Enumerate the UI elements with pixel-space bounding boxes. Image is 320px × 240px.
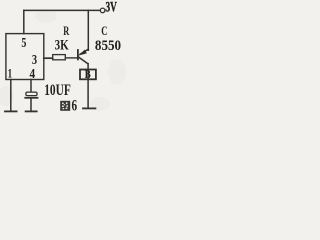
capacitor C1 bottom plate [25,97,37,99]
ground bar capacitor [26,110,37,112]
svg-text:R: R [63,23,69,38]
wire emitter vertical from rail [87,10,89,50]
ground bar under box B [83,107,95,109]
ground bar pin1 [5,110,17,112]
background [0,0,126,118]
wire pin1 down [10,80,12,112]
scan shading blobs [0,9,126,111]
svg-text:1: 1 [8,65,13,80]
box B (buzzer) [80,70,96,80]
transistor Q1 base bar [77,50,79,59]
svg-text:3: 3 [32,52,37,67]
wire pin5 vertical [23,10,25,33]
resistor R 3K body [53,55,66,60]
wire collector through box B to ground [87,64,89,109]
svg-text:10UF: 10UF [44,82,71,99]
wire pin3 to resistor [44,57,53,59]
svg-text:3V: 3V [106,0,118,16]
wire capacitor to ground [30,98,32,112]
wire pin4 down to capacitor [30,80,32,93]
transistor Q1 emitter arrowhead [79,50,87,55]
svg-text:5: 5 [21,36,26,51]
svg-text:B: B [85,67,91,81]
caption 图 glyph (drawn, CJK) [60,101,70,111]
svg-text:6: 6 [72,97,78,114]
terminal 3V circle [100,8,105,13]
svg-text:4: 4 [30,67,36,82]
svg-text:C: C [101,24,107,38]
wire resistor to base [65,57,77,59]
svg-text:3K: 3K [55,38,70,54]
svg-text:8550: 8550 [95,38,121,54]
transistor Q1 emitter diagonal [80,49,88,54]
capacitor C1 top plate (hollow) [26,92,37,96]
wire top rail to 3V [24,9,101,11]
IC U1 box [6,34,44,80]
transistor Q1 collector diagonal [78,57,88,64]
